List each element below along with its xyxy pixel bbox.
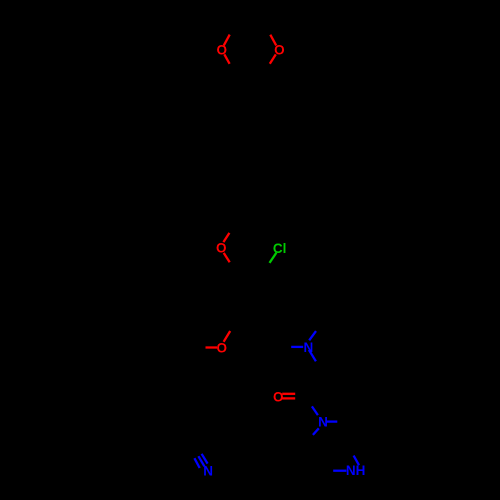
svg-text:NH: NH [346, 463, 366, 478]
bond O3-CH3 red half (up-right) [223, 233, 229, 242]
bond O5=C double bond red half (bottom line) [282, 397, 295, 399]
bond C#N triple bond blue half (middle line) [198, 456, 204, 466]
bond Cl1-Car green half (down-left) [270, 253, 277, 263]
bond O5=C double bond red half (top line) [282, 393, 295, 395]
bond C#N triple bond blue half (right line) [202, 454, 208, 464]
svg-text:O: O [273, 389, 284, 404]
svg-text:O: O [217, 341, 228, 356]
bond O4-CH3 red half (horizontal left) [206, 346, 218, 348]
bond O1-C8a red half (down-right) [224, 54, 229, 64]
bond N3-C blue half (up-right) [354, 456, 359, 466]
bond C#N triple bond blue half (left line) [194, 458, 199, 468]
bond N2-C blue half (horizontal right) [326, 420, 337, 422]
bond O2-C4a red half (down-left) [270, 54, 276, 63]
bond N2-C blue half (down-left) [313, 428, 319, 435]
bond O2-C3 red half (up-left) [270, 35, 276, 46]
bond N1-CH2 blue half (horizontal left) [291, 346, 303, 348]
bond N1-C blue half (down-right) [309, 350, 316, 361]
bond N3-C blue half (horizontal left) [333, 470, 346, 472]
bond O1-C2 red half (up-right) [224, 35, 230, 46]
bond O3-Car red half (down-right) [224, 253, 230, 262]
bond O4-Car red half (up-right) [224, 331, 231, 342]
bond N1-C blue half (up-right) [309, 331, 316, 340]
bond N2-C(=O) blue half (up-left) [312, 406, 318, 415]
